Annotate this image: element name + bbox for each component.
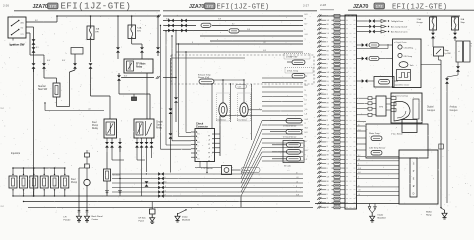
svg-text:7.5A: 7.5A [137, 27, 142, 30]
svg-text:FP: FP [208, 144, 210, 146]
svg-text:2-28: 2-28 [320, 3, 326, 7]
svg-text:FP: FP [208, 152, 210, 154]
svg-text:JZA70: JZA70 [353, 4, 368, 10]
svg-text:AM2: AM2 [21, 22, 25, 25]
svg-text:Ignition SW: Ignition SW [10, 43, 25, 47]
svg-text:R-L: R-L [327, 185, 330, 187]
svg-text:1: 1 [64, 172, 65, 174]
svg-text:+B: +B [208, 148, 210, 150]
svg-text:Fender: Fender [64, 219, 71, 222]
svg-text:w/ Digital Cluster: w/ Digital Cluster [394, 41, 407, 44]
svg-text:Fuel: Fuel [92, 122, 97, 124]
svg-text:Relay: Relay [92, 128, 99, 130]
svg-text:T: T [198, 155, 199, 157]
svg-text:JZA70: JZA70 [189, 4, 204, 10]
svg-text:Check Eng.: Check Eng. [404, 48, 414, 50]
svg-text:R-L: R-L [164, 177, 167, 179]
svg-text:LH Kick: LH Kick [139, 218, 147, 220]
svg-text:172: 172 [49, 4, 57, 9]
svg-text:FP: FP [208, 161, 210, 163]
svg-text:Circuit: Circuit [156, 121, 163, 124]
svg-text:1 Vac. Sensor: 1 Vac. Sensor [391, 133, 403, 136]
svg-text:LH: LH [64, 217, 67, 219]
svg-text:b: b [162, 108, 163, 110]
svg-text:B-W: B-W [62, 60, 66, 62]
svg-text:2-26: 2-26 [3, 4, 9, 8]
svg-text:1: 1 [33, 172, 34, 174]
svg-text:ST1: ST1 [21, 34, 24, 36]
svg-text:B-W: B-W [47, 60, 51, 62]
svg-text:Manifold: Manifold [182, 219, 191, 221]
svg-text:Intake: Intake [378, 214, 385, 217]
svg-text:B-Y: B-Y [358, 155, 361, 157]
svg-text:Gauges: Gauges [427, 110, 436, 112]
svg-text:Intake: Intake [182, 215, 189, 218]
svg-text:W-B: W-B [358, 168, 361, 170]
svg-text:1 Air Temp Sensor: 1 Air Temp Sensor [369, 147, 386, 150]
svg-text:EFI Main: EFI Main [136, 64, 146, 66]
svg-text:Gauge: Gauge [417, 22, 424, 24]
svg-text:Injectors: Injectors [11, 152, 21, 155]
svg-text:Tach: Tach [410, 65, 414, 67]
svg-text:172: 172 [206, 4, 214, 9]
svg-text:IG2: IG2 [21, 28, 24, 30]
svg-text:R-L: R-L [327, 159, 330, 161]
svg-text:1: 1 [54, 172, 55, 174]
svg-text:E1: E1 [198, 150, 200, 152]
svg-text:Lp SW: Lp SW [445, 53, 451, 55]
svg-text:1 Ox. Sensor: 1 Ox. Sensor [216, 118, 226, 121]
svg-text:R-L: R-L [327, 55, 330, 57]
svg-text:G-W: G-W [305, 119, 309, 121]
svg-text:R-L: R-L [327, 29, 330, 31]
svg-text:Open: Open [156, 125, 162, 127]
svg-text:Taillight Fuse: Taillight Fuse [391, 20, 404, 23]
svg-text:Canada: Canada [243, 170, 251, 172]
svg-text:L-B: L-B [88, 109, 90, 111]
svg-text:1: 1 [23, 172, 24, 174]
svg-text:Center: Center [92, 218, 99, 221]
svg-text:Calif.: Calif. [238, 86, 242, 88]
svg-text:IG Coils: IG Coils [284, 166, 291, 168]
svg-text:B-W: B-W [124, 76, 128, 78]
svg-text:A/C Comp Clutch: A/C Comp Clutch [391, 26, 408, 29]
svg-text:1 EVAP VSV: 1 EVAP VSV [286, 56, 298, 59]
svg-text:+B: +B [208, 140, 210, 142]
svg-text:FP: FP [208, 136, 210, 138]
svg-text:1: 1 [44, 172, 45, 174]
svg-text:Relay: Relay [156, 128, 163, 130]
svg-text:Analog: Analog [450, 106, 458, 109]
svg-text:Pump: Pump [71, 182, 78, 184]
svg-text:T: T [198, 146, 199, 148]
svg-text:E1: E1 [198, 142, 200, 144]
svg-text:R-L: R-L [305, 95, 308, 97]
svg-text:EFI: EFI [96, 32, 100, 34]
svg-text:O/D Temp: O/D Temp [404, 56, 412, 58]
svg-text:Neutral: Neutral [38, 85, 46, 88]
svg-text:T: T [198, 138, 199, 140]
svg-text:B-Y: B-Y [232, 24, 235, 26]
svg-text:W-B: W-B [247, 29, 250, 31]
svg-text:Panel: Panel [139, 221, 145, 223]
svg-text:2 Ox. Sensor: 2 Ox. Sensor [237, 118, 247, 121]
svg-text:15A: 15A [96, 28, 100, 31]
svg-text:Water Temp: Water Temp [369, 132, 381, 135]
svg-text:Digital: Digital [427, 106, 434, 109]
svg-text:Relay: Relay [136, 67, 143, 69]
svg-text:JZA70: JZA70 [33, 4, 48, 10]
svg-text:Shifter: Shifter [426, 211, 432, 214]
svg-text:R-L: R-L [327, 133, 330, 135]
svg-text:Fuel: Fuel [71, 179, 76, 181]
svg-text:EFI(1JZ-GTE): EFI(1JZ-GTE) [61, 2, 132, 12]
svg-text:D: D [413, 193, 415, 196]
svg-text:Pump: Pump [92, 125, 99, 127]
svg-text:B-Y: B-Y [164, 194, 167, 196]
svg-text:E1: E1 [198, 159, 200, 161]
svg-text:172: 172 [376, 4, 384, 9]
svg-text:20A: 20A [461, 18, 465, 21]
svg-text:L: L [305, 29, 306, 31]
svg-text:R-L: R-L [327, 107, 330, 109]
svg-text:W-B: W-B [164, 181, 167, 183]
svg-text:2-27: 2-27 [303, 4, 309, 8]
svg-text:7.5A: 7.5A [417, 18, 422, 21]
svg-text:L: L [305, 146, 306, 148]
svg-text:Start SW: Start SW [38, 88, 48, 91]
svg-text:TPS: TPS [379, 107, 384, 109]
svg-text:Manifold: Manifold [378, 218, 387, 220]
svg-text:Back Panel: Back Panel [92, 216, 104, 218]
svg-text:1: 1 [13, 172, 14, 174]
svg-text:2 Exh. Temp: 2 Exh. Temp [287, 71, 299, 73]
svg-text:+B: +B [208, 157, 210, 159]
svg-text:IGN: IGN [137, 31, 141, 33]
svg-text:Gauges: Gauges [450, 110, 459, 112]
svg-text:2 Knock Sensor: 2 Knock Sensor [283, 136, 297, 139]
svg-text:E1: E1 [198, 134, 200, 136]
svg-text:Digital Meter Cluster: Digital Meter Cluster [394, 84, 410, 87]
svg-text:Hump: Hump [426, 215, 432, 217]
